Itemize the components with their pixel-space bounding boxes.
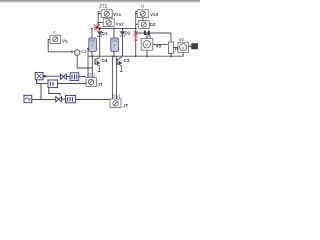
wire top horizontal bus (97, 28, 137, 30)
svg-text:D2: D2 (150, 22, 156, 27)
junction dots dc bus (91, 55, 172, 57)
wire motor right (153, 44, 169, 46)
wire box3 to C2 (48, 40, 71, 52)
voltmeter V (178, 42, 188, 52)
wire block2 bottom L (49, 88, 60, 96)
wire left column vertical (98, 12, 107, 29)
gate driver box left (86, 78, 96, 87)
resistor R (170, 33, 172, 56)
sensor circle C2 (75, 50, 80, 55)
wire xbox out (43, 75, 60, 77)
wire block2 out (58, 83, 86, 85)
wire to SS1 (76, 99, 110, 101)
wire motor top bus (136, 32, 171, 34)
pwm bars box (70, 73, 79, 81)
svg-text:u: u (141, 4, 144, 10)
wire sine out (32, 99, 56, 101)
junction dots top bus (91, 28, 137, 30)
red star junction left (93, 24, 101, 31)
wire C2 down (77, 55, 92, 68)
wire to gate driver (79, 76, 86, 78)
gate wires left pair (88, 56, 92, 77)
voltage probe (188, 45, 191, 47)
igbt D3 (120, 56, 122, 57)
svg-text:D4: D4 (102, 58, 108, 63)
thyristor box VT1 (101, 10, 112, 18)
wire cylinder left leg (91, 29, 93, 56)
thyristor box VT3 (137, 10, 148, 18)
sine source box (24, 95, 32, 102)
thyristor box VT2 (103, 19, 114, 27)
svg-text:Vs1: Vs1 (113, 12, 122, 17)
thyristor box VT4 (138, 21, 149, 29)
limiter bowtie 2 (56, 97, 62, 102)
igbt D4 (98, 56, 100, 57)
svg-text:Vs2: Vs2 (116, 22, 125, 27)
pwm bars box 2 (66, 95, 76, 102)
svg-text:D1: D1 (102, 31, 108, 36)
connector bars (144, 31, 146, 35)
diode D2 (122, 29, 124, 31)
snubber cylinder left (89, 38, 97, 52)
stub x88 above bus (87, 49, 89, 57)
limiter bowtie (61, 74, 67, 79)
snubber cylinder right (111, 38, 119, 52)
gain block2 (48, 80, 58, 88)
svg-text:u0: u0 (179, 37, 184, 42)
wire branch down (40, 84, 42, 100)
svg-text:Vs: Vs (62, 38, 68, 43)
svg-text:JT1: JT1 (99, 4, 108, 10)
red arrow into C2 (71, 50, 75, 53)
multiplier X box (35, 72, 43, 79)
svg-text:Vs3: Vs3 (150, 12, 159, 17)
svg-text:D2: D2 (125, 31, 131, 36)
voltmeter V0 box (141, 38, 153, 50)
svg-text:SS1: SS1 (87, 73, 96, 78)
junction dot (44, 75, 46, 77)
svg-text:JT: JT (98, 82, 104, 87)
gate wires right pair (111, 56, 113, 99)
svg-text:C2: C2 (81, 49, 87, 54)
red armature link (135, 33, 137, 42)
wire bottom dc bus (88, 55, 184, 57)
wire right column down to motor bus (135, 29, 137, 33)
diode D1 (99, 29, 101, 31)
wire right column vertical (136, 12, 143, 29)
gate box SS1 (110, 99, 121, 108)
xbox down branch (37, 80, 48, 84)
svg-text:SS1: SS1 (112, 93, 121, 98)
svg-text:JT: JT (123, 103, 129, 108)
wire cylinder right leg (113, 29, 115, 56)
svg-text:D3: D3 (124, 58, 130, 63)
red star junction right (134, 31, 138, 35)
